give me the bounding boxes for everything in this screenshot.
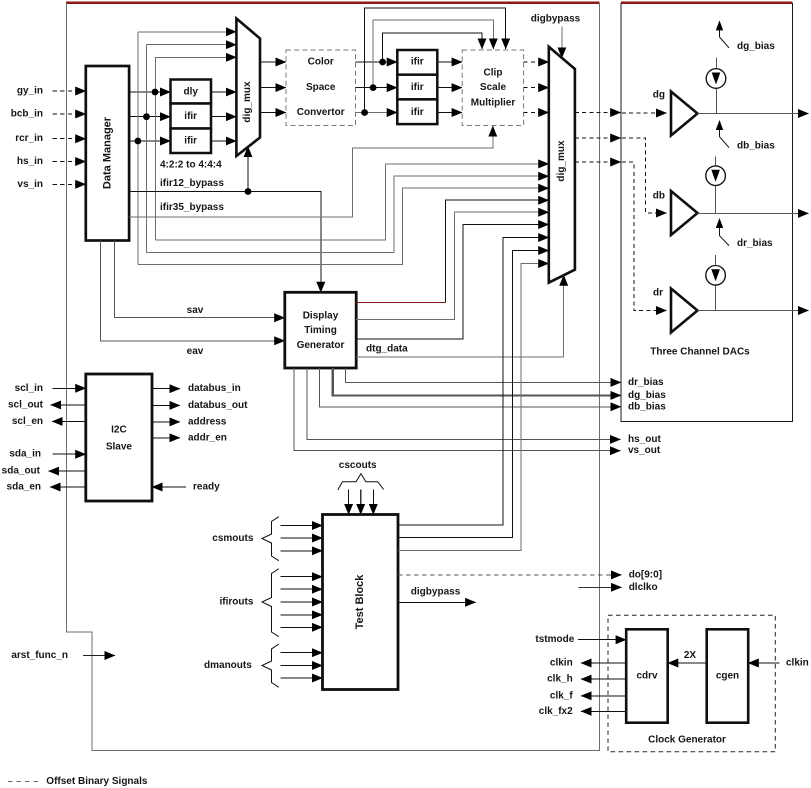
wire ifir row1 to CSM bbox=[437, 61, 462, 63]
wire DTG bottom out (db_bias) bbox=[320, 368, 621, 407]
svg-text:dlclko: dlclko bbox=[629, 582, 658, 593]
wire mux2 dashed output3 to DAC box bbox=[575, 161, 610, 163]
block I2C Slave bbox=[86, 374, 152, 501]
svg-text:clk_fx2: clk_fx2 bbox=[539, 706, 573, 717]
svg-text:dig_mux: dig_mux bbox=[556, 140, 567, 182]
svg-text:sav: sav bbox=[187, 305, 204, 316]
svg-text:do[9:0]: do[9:0] bbox=[629, 569, 662, 580]
wire CSC out1 to ifir stack2 bbox=[356, 61, 398, 63]
svg-text:db: db bbox=[653, 191, 665, 202]
wire digbypass output bbox=[398, 601, 476, 603]
svg-text:hs_out: hs_out bbox=[628, 434, 661, 445]
wire DTG out3 to mux2 input6 bbox=[356, 225, 549, 340]
svg-text:Multiplier: Multiplier bbox=[471, 97, 516, 108]
wire ifir1-tap down-branch to mux2 input2 bbox=[147, 176, 549, 252]
wire mux2 dashed output2 to DAC box bbox=[575, 137, 610, 139]
svg-text:db_bias: db_bias bbox=[737, 141, 775, 152]
svg-text:dtg_data: dtg_data bbox=[366, 344, 408, 355]
svg-text:Timing: Timing bbox=[304, 325, 337, 336]
wire dtg_data (DTG to mux2 select riser) bbox=[356, 356, 564, 358]
wire clk_h out of cdrv bbox=[581, 678, 626, 680]
mux dig_mux (left) bbox=[236, 19, 260, 157]
wire mux1 select branch (up from ifir12_bypass) bbox=[247, 147, 249, 192]
svg-text:cscouts: cscouts bbox=[339, 460, 377, 471]
block ifir (stack2 row3) bbox=[397, 99, 437, 124]
svg-text:clk_h: clk_h bbox=[547, 674, 573, 685]
svg-text:clk_f: clk_f bbox=[550, 690, 573, 701]
svg-text:dr: dr bbox=[653, 288, 663, 299]
wire CSC tap3 over-the-top to CSM top input3 bbox=[365, 8, 506, 113]
wire ifirouts line2 bbox=[281, 588, 323, 590]
wire ifir2-tap down-branch to mux2 input3 bbox=[138, 188, 549, 265]
wire test block out1 to mux2 input7 bbox=[398, 238, 549, 526]
wire ifir35_bypass (DM to CSM bottom select) bbox=[129, 126, 493, 217]
svg-text:databus_in: databus_in bbox=[188, 383, 241, 394]
bias adjust symbol dr_bias bbox=[720, 227, 730, 246]
wire cscouts arrow3 bbox=[372, 490, 374, 515]
svg-text:dr_bias: dr_bias bbox=[628, 377, 664, 388]
wire csmouts line3 bbox=[281, 550, 323, 552]
svg-text:ifir: ifir bbox=[184, 111, 197, 122]
wire db output bbox=[698, 212, 809, 214]
block dly bbox=[171, 80, 212, 104]
box Clock Generator (dashed) bbox=[608, 615, 775, 752]
svg-text:ifirouts: ifirouts bbox=[220, 597, 254, 608]
svg-text:Scale: Scale bbox=[480, 82, 507, 93]
wire dlclko (from mux2 bottom corner) bbox=[579, 586, 622, 588]
block ifir (1) bbox=[171, 104, 212, 129]
wire dr input (dashed inside DAC box) bbox=[622, 162, 656, 311]
svg-text:Slave: Slave bbox=[106, 442, 133, 453]
svg-text:db_bias: db_bias bbox=[628, 401, 666, 412]
wire ready (into I2C) bbox=[152, 486, 186, 488]
svg-text:clkin: clkin bbox=[550, 658, 573, 669]
svg-text:dly: dly bbox=[183, 87, 198, 98]
svg-text:cdrv: cdrv bbox=[636, 671, 658, 682]
wire bcb_in bbox=[53, 113, 75, 115]
wire dly-tap down-branch to mux2 input1 bbox=[155, 164, 548, 240]
svg-text:dg_bias: dg_bias bbox=[628, 390, 666, 401]
wire mux1 out2 to CSC bbox=[260, 87, 286, 89]
svg-text:bcb_in: bcb_in bbox=[11, 109, 43, 120]
svg-text:ifir12_bypass: ifir12_bypass bbox=[160, 178, 224, 189]
bias adjust symbol dg_bias bbox=[720, 29, 730, 48]
brace dmanouts bbox=[262, 644, 279, 687]
junction dot ifir1 tap bbox=[143, 113, 150, 120]
junction dot ifir2 tap bbox=[135, 138, 142, 145]
block Color Space Convertor (dashed) bbox=[286, 50, 356, 126]
svg-text:4:2:2 to 4:4:4: 4:2:2 to 4:4:4 bbox=[160, 160, 222, 171]
brace cscouts (pointing up) bbox=[338, 474, 384, 490]
wire cgen to cdrv bbox=[668, 662, 707, 664]
svg-text:cgen: cgen bbox=[716, 671, 739, 682]
wire gy_in (dashed input) bbox=[53, 90, 75, 92]
svg-text:2X: 2X bbox=[684, 650, 697, 661]
buffer db (triangle) bbox=[671, 191, 698, 235]
junction dot dly tap bbox=[152, 89, 159, 96]
wire ifir12_bypass (DM to mux1 select and DTG top) bbox=[129, 192, 321, 293]
svg-text:vs_out: vs_out bbox=[628, 445, 661, 456]
wire DTG bottom out (vs_out) bbox=[294, 368, 621, 451]
svg-text:Test Block: Test Block bbox=[354, 574, 366, 630]
current source db (circle) bbox=[706, 166, 726, 186]
block Data Manager bbox=[86, 66, 129, 241]
wire clk_f out of cdrv bbox=[581, 695, 626, 697]
svg-text:dg: dg bbox=[653, 90, 665, 101]
wire test block out2 to mux2 input8 bbox=[398, 251, 549, 538]
svg-text:Color: Color bbox=[308, 57, 334, 68]
wire DTG bottom out (dr_bias) bbox=[346, 368, 621, 382]
svg-text:clkin: clkin bbox=[786, 658, 809, 669]
wire clk_fx2 out of cdrv bbox=[581, 710, 626, 712]
DAC box top edge (maroon) bbox=[621, 1, 793, 4]
wire ifir1-tap vertical (to mux top input B and down-branch) bbox=[146, 45, 148, 253]
buffer dr (triangle) bbox=[671, 289, 698, 333]
brace csmouts bbox=[262, 517, 279, 561]
wire ifir1 output to mux1 bbox=[211, 116, 236, 118]
svg-text:addr_en: addr_en bbox=[188, 432, 227, 443]
svg-text:arst_func_n: arst_func_n bbox=[11, 650, 68, 661]
wire CSC out3 to ifir stack2 bbox=[356, 112, 398, 114]
svg-text:ready: ready bbox=[193, 482, 220, 493]
svg-text:Offset Binary Signals: Offset Binary Signals bbox=[46, 776, 148, 787]
wire digbypass down into mux2 top bbox=[561, 27, 563, 58]
block Test Block bbox=[323, 515, 399, 690]
wire address bbox=[152, 421, 180, 423]
svg-text:scl_en: scl_en bbox=[12, 416, 43, 427]
wire cscouts arrow1 bbox=[348, 490, 350, 515]
mux dig_mux (right) bbox=[549, 47, 575, 283]
brace ifirouts bbox=[262, 569, 279, 637]
current source dr (stem) bbox=[715, 255, 717, 311]
svg-text:Display: Display bbox=[303, 311, 339, 322]
svg-text:ifir: ifir bbox=[184, 136, 197, 147]
block ifir (stack2 row1) bbox=[397, 50, 437, 75]
wire ifirouts line3 bbox=[281, 601, 323, 603]
wire csmouts line1 bbox=[281, 525, 323, 527]
wire mux2 dashed output1 to DAC box bbox=[575, 112, 610, 114]
junction dot CSC tap3 bbox=[361, 109, 368, 116]
chip boundary left/bottom/right edges bbox=[67, 3, 600, 750]
svg-text:sda_out: sda_out bbox=[2, 466, 41, 477]
block Display Timing Generator bbox=[285, 292, 356, 368]
svg-text:vs_in: vs_in bbox=[17, 179, 43, 190]
svg-text:dg_bias: dg_bias bbox=[737, 41, 775, 52]
svg-text:digbypass: digbypass bbox=[531, 14, 581, 25]
wire rcr_in bbox=[53, 138, 75, 140]
wire dr output bbox=[698, 310, 809, 312]
wire CSM out3 to mux2 (dashed) bbox=[524, 112, 539, 114]
wire DTG out1 (maroon) to mux2 input4 bbox=[356, 301, 446, 303]
buffer dg (triangle) bbox=[671, 92, 698, 136]
block ifir (stack2 row2) bbox=[397, 75, 437, 100]
wire DM to ifir(1) bbox=[129, 116, 170, 118]
wire sda_out bbox=[49, 470, 86, 472]
wire do[9:0] (dashed output) bbox=[398, 574, 608, 576]
current source dg (stem) bbox=[715, 58, 717, 114]
wire ifir2-tap vertical (to mux top input A and down-branch) bbox=[137, 32, 139, 265]
wire dly-tap vertical (to mux top input C and down-branch) bbox=[154, 57, 156, 240]
block cgen bbox=[707, 629, 749, 722]
wire dg input (dashed inside DAC box) bbox=[622, 112, 656, 114]
wire CSC out2 to ifir stack2 bbox=[356, 87, 398, 89]
wire mux1 out1 to CSC bbox=[260, 61, 286, 63]
wire dmanouts line3 bbox=[281, 677, 323, 679]
svg-text:scl_out: scl_out bbox=[8, 399, 44, 410]
chip boundary top edge (maroon) bbox=[66, 1, 600, 4]
svg-text:Generator: Generator bbox=[297, 340, 345, 351]
wire csmouts line2 bbox=[281, 537, 323, 539]
wire DM to ifir(2) bbox=[129, 140, 170, 142]
svg-text:ifir35_bypass: ifir35_bypass bbox=[160, 202, 224, 213]
svg-text:eav: eav bbox=[187, 346, 204, 357]
wire sda_in bbox=[53, 453, 86, 455]
svg-text:Three Channel DACs: Three Channel DACs bbox=[650, 347, 750, 358]
wire clkin (external, right) bbox=[748, 662, 779, 664]
junction dot ifir12_bypass branch bbox=[245, 188, 252, 195]
wire hs_in bbox=[53, 161, 75, 163]
wire cscouts arrow2 bbox=[360, 490, 362, 515]
wire dmanouts line2 bbox=[281, 665, 323, 667]
svg-text:rcr_in: rcr_in bbox=[15, 133, 43, 144]
DAC box (Three Channel DACs) bbox=[621, 3, 793, 421]
wire dmanouts line1 bbox=[281, 652, 323, 654]
wire sda_en bbox=[50, 486, 86, 488]
wire mux2 select (dtg_data up into bottom slant) bbox=[563, 275, 565, 357]
svg-text:dr_bias: dr_bias bbox=[737, 238, 773, 249]
wire sav (from DM bottom to DTG) bbox=[114, 241, 284, 318]
wire CSC tap2 over-the-top to CSM top input2 bbox=[373, 20, 493, 88]
wire dg output bbox=[698, 113, 809, 115]
wire ifir row2 to CSM bbox=[437, 87, 462, 89]
svg-text:Data Manager: Data Manager bbox=[102, 116, 114, 189]
wire DM to dly bbox=[129, 91, 170, 93]
svg-text:scl_in: scl_in bbox=[15, 383, 43, 394]
svg-text:databus_out: databus_out bbox=[188, 400, 248, 411]
wire ifirouts line1 bbox=[281, 576, 323, 578]
wire eav (from DM bottom to DTG) bbox=[100, 241, 284, 341]
block Clip Scale Multiplier (dashed) bbox=[462, 50, 523, 126]
wire test block out3 to mux2 input9 bbox=[398, 264, 549, 551]
svg-text:Convertor: Convertor bbox=[297, 107, 345, 118]
wire addr_en bbox=[152, 437, 180, 439]
wire ifirouts line4 bbox=[281, 614, 323, 616]
wire ifir row3 to CSM bbox=[437, 112, 462, 114]
wire databus_in bbox=[152, 388, 180, 390]
wire ifir2 output to mux1 bbox=[211, 140, 236, 142]
wire db input (dashed inside DAC box) bbox=[622, 138, 656, 213]
current source dr (circle) bbox=[706, 266, 726, 286]
svg-text:address: address bbox=[188, 416, 227, 427]
current source db (stem) bbox=[715, 157, 717, 214]
wire dly output to mux1 bbox=[211, 91, 236, 93]
wire tstmode into cdrv bbox=[578, 639, 626, 641]
svg-text:sda_in: sda_in bbox=[9, 449, 41, 460]
bias adjust symbol db_bias bbox=[720, 129, 730, 148]
wire scl_in bbox=[53, 387, 86, 389]
wire CSM out1 to mux2 (dashed) bbox=[524, 61, 539, 63]
block cdrv bbox=[626, 629, 668, 722]
wire vs_in bbox=[53, 183, 75, 185]
svg-text:Clock Generator: Clock Generator bbox=[648, 734, 726, 745]
svg-text:digbypass: digbypass bbox=[411, 587, 461, 598]
svg-text:ifir: ifir bbox=[411, 57, 424, 68]
current source dg (circle) bbox=[706, 69, 726, 89]
svg-text:dig_mux: dig_mux bbox=[242, 81, 253, 123]
wire clkin out of cdrv bbox=[581, 662, 626, 664]
svg-text:tstmode: tstmode bbox=[535, 634, 574, 645]
wire DTG bottom out (dg_bias) bbox=[333, 368, 621, 395]
svg-text:Space: Space bbox=[306, 82, 336, 93]
junction dot CSC tap1 bbox=[379, 59, 386, 66]
svg-text:gy_in: gy_in bbox=[17, 86, 43, 97]
wire CSC tap1 over-the-top to CSM top input1 bbox=[383, 33, 482, 62]
svg-text:hs_in: hs_in bbox=[17, 156, 43, 167]
legend dashed line bbox=[8, 780, 42, 782]
wire scl_en bbox=[52, 420, 86, 422]
wire CSM out2 to mux2 (dashed) bbox=[524, 87, 539, 89]
wire arst_func_n bbox=[83, 655, 115, 657]
wire ifirouts line5 bbox=[281, 626, 323, 628]
wire DTG out2 to mux2 input5 bbox=[356, 212, 549, 319]
wire mux1 out3 to CSC bbox=[260, 112, 286, 114]
svg-text:dmanouts: dmanouts bbox=[204, 660, 252, 671]
block ifir (2) bbox=[171, 129, 212, 154]
svg-text:ifir: ifir bbox=[411, 82, 424, 93]
wire databus_out bbox=[152, 404, 180, 406]
svg-text:ifir: ifir bbox=[411, 107, 424, 118]
svg-text:sda_en: sda_en bbox=[7, 482, 41, 493]
junction dot CSC tap2 bbox=[370, 84, 377, 91]
wire scl_out bbox=[51, 404, 86, 406]
svg-text:Clip: Clip bbox=[484, 67, 503, 78]
wire DTG bottom out (hs_out) bbox=[307, 368, 621, 439]
svg-text:I2C: I2C bbox=[111, 425, 127, 436]
svg-text:csmouts: csmouts bbox=[212, 533, 254, 544]
